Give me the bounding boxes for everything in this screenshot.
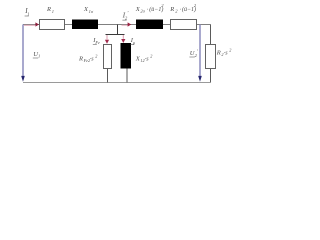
svg-text:R: R (216, 49, 221, 56)
svg-text:2: 2 (229, 47, 231, 52)
svg-text:Fe: Fe (94, 40, 100, 45)
svg-text:μ: μ (133, 40, 135, 45)
svg-text:·s: ·s (90, 56, 95, 62)
svg-text:·s: ·s (145, 56, 150, 62)
svg-text:2σ: 2σ (140, 9, 145, 14)
svg-text:R: R (169, 6, 174, 13)
svg-text:2: 2 (95, 53, 97, 58)
svg-text:1σ: 1σ (89, 9, 94, 14)
svg-text:R: R (46, 6, 51, 13)
svg-text:1: 1 (52, 9, 54, 14)
svg-text:2: 2 (150, 53, 152, 58)
svg-text:1: 1 (27, 11, 29, 16)
svg-text:1: 1 (38, 53, 40, 58)
svg-text:·s: ·s (224, 50, 229, 56)
svg-text:R: R (78, 55, 83, 62)
